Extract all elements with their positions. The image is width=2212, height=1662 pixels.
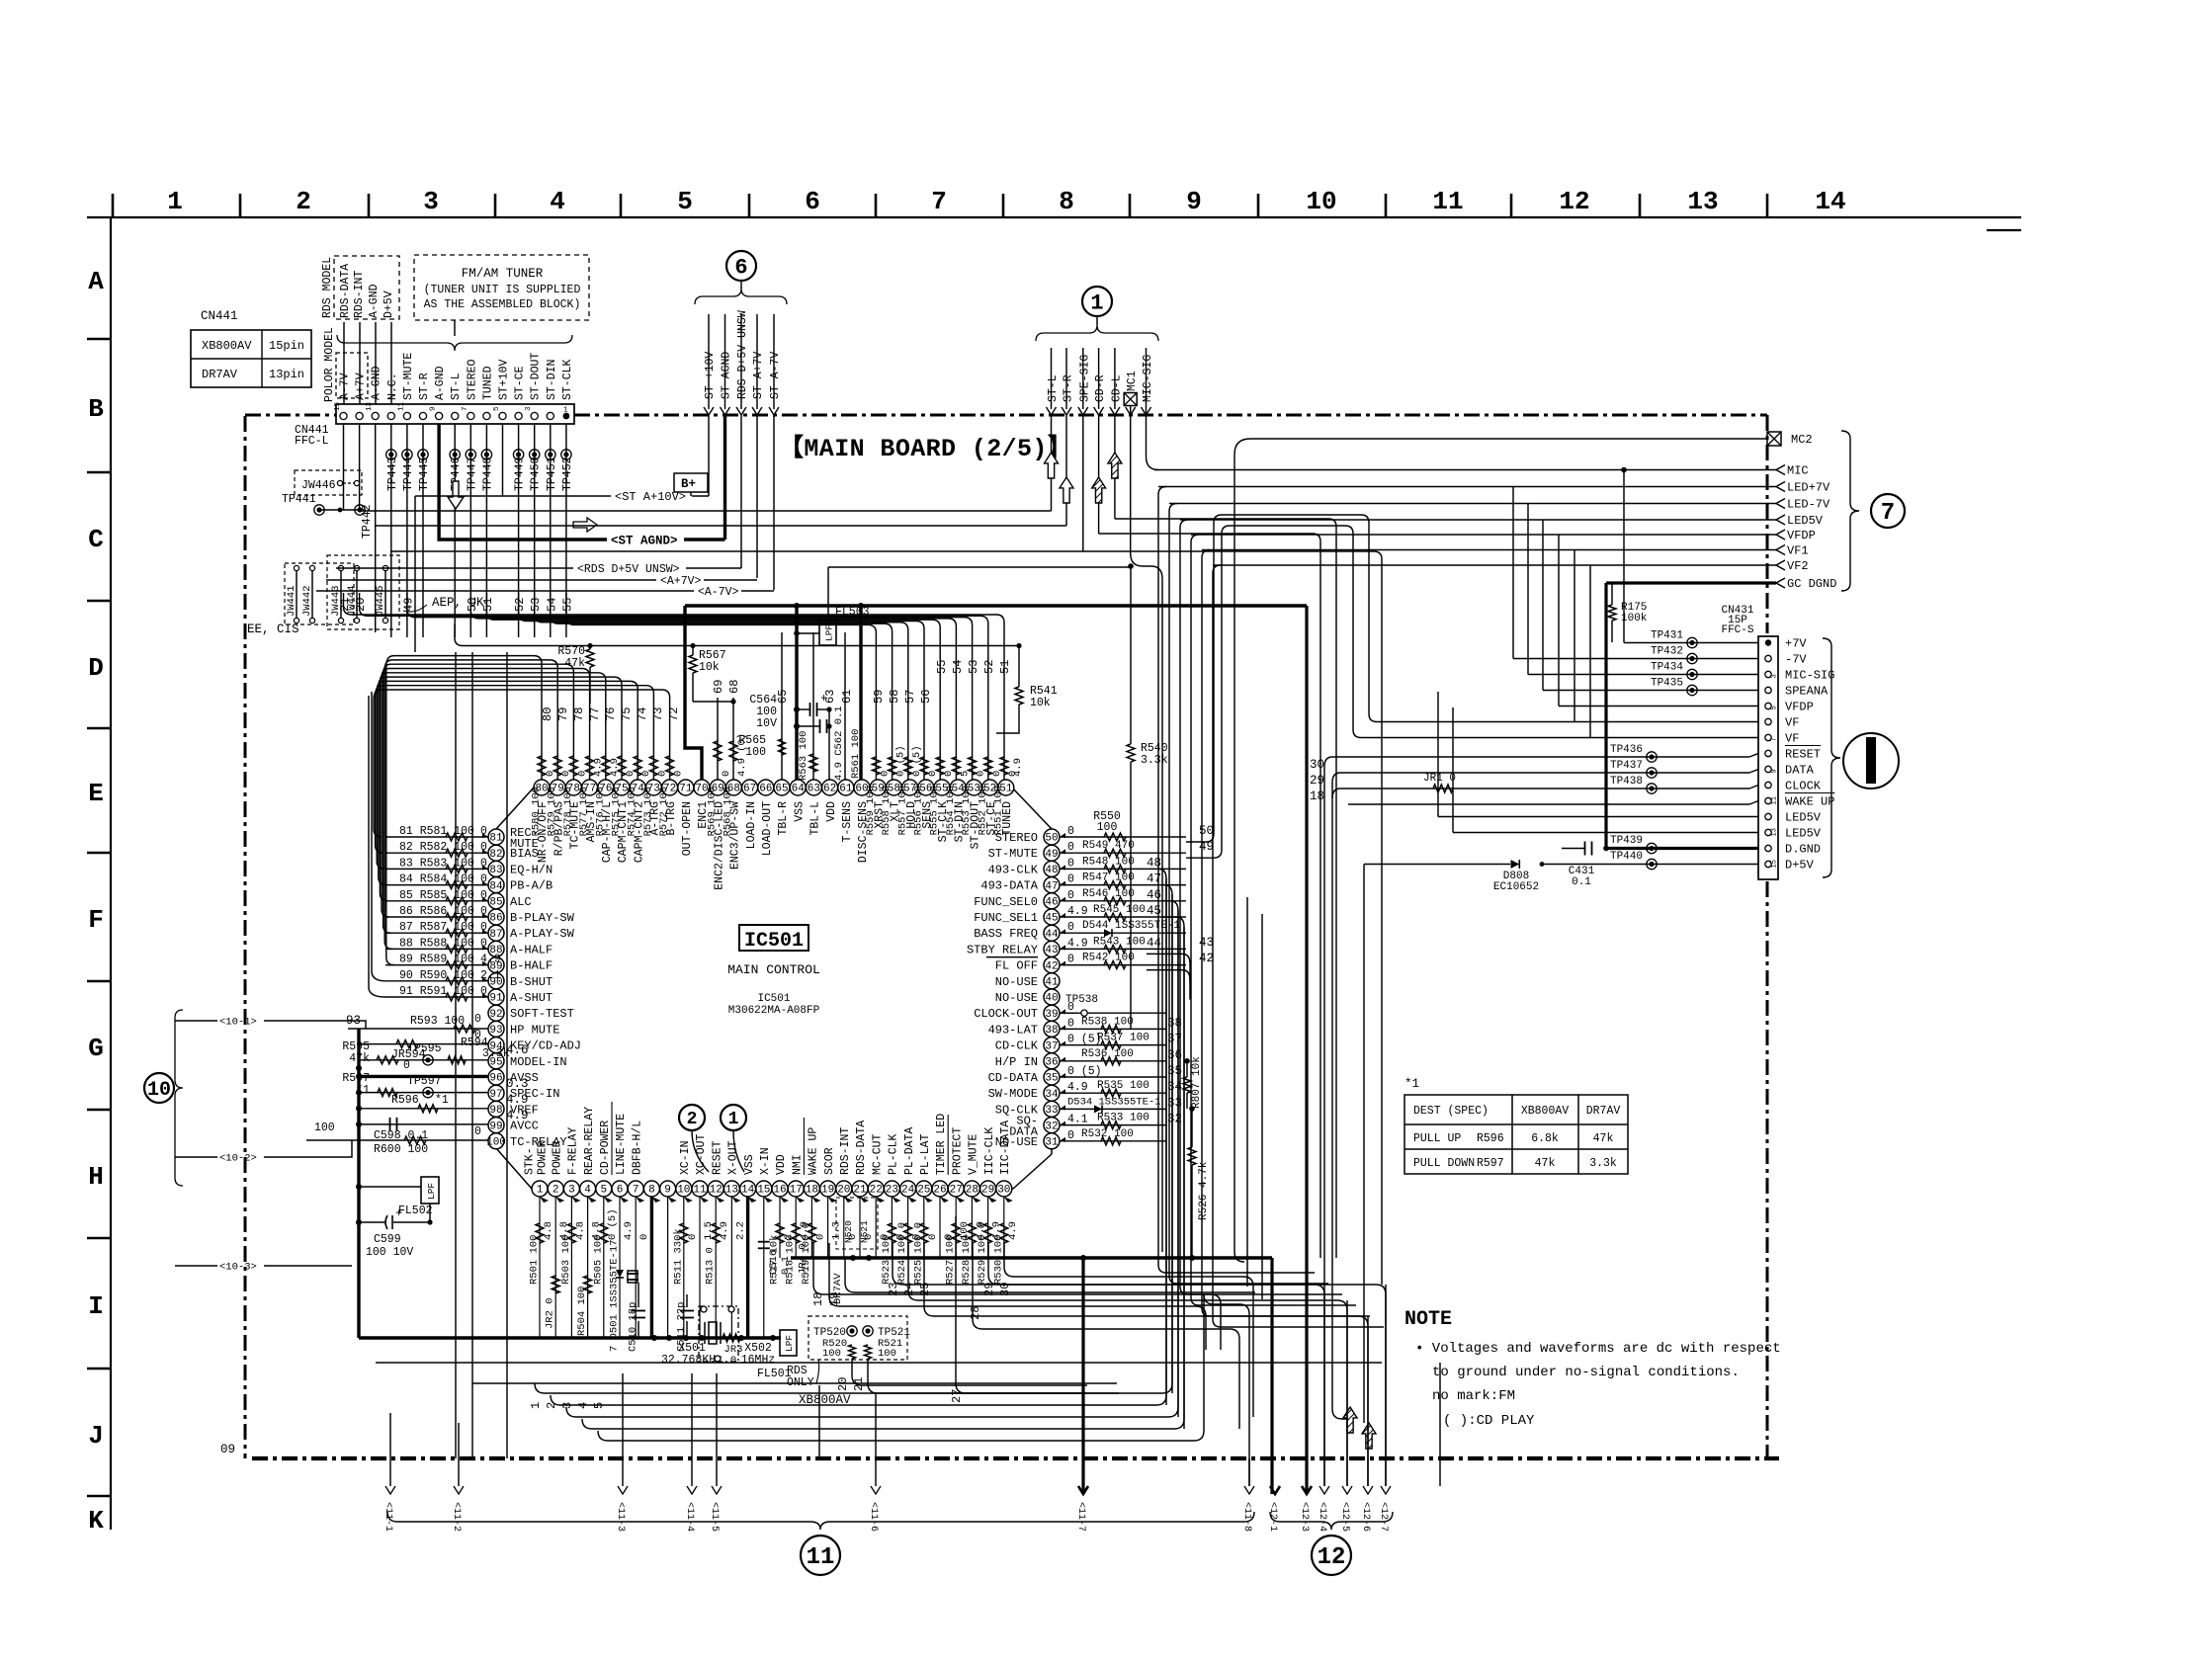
filter FL501 LPF: [780, 1330, 797, 1356]
svg-text:<10-1>: <10-1>: [219, 1017, 257, 1029]
svg-text:T-SENS: T-SENS: [841, 801, 854, 843]
resistor R596: [359, 1108, 488, 1110]
right bus hooks 50 49 Z-runs: [1186, 515, 1758, 842]
svg-text:LINE-MUTE: LINE-MUTE: [615, 1114, 628, 1175]
svg-text:R513 0: R513 0: [705, 1247, 717, 1285]
svg-text:22: 22: [870, 1185, 883, 1197]
svg-text:89 R589 100: 89 R589 100: [399, 954, 474, 966]
svg-text:4.8: 4.8: [574, 1221, 586, 1240]
svg-text:38: 38: [1045, 1025, 1058, 1037]
svg-text:<11-2: <11-2: [451, 1502, 462, 1532]
svg-text:0: 0: [638, 1234, 650, 1240]
bus pin25 to 12-6: [924, 1243, 1368, 1486]
svg-text:55: 55: [560, 598, 574, 612]
svg-text:A-GND: A-GND: [371, 366, 383, 400]
svg-text:7 D501 1SS355TE-17: 7 D501 1SS355TE-17: [609, 1240, 621, 1352]
svg-text:96: 96: [489, 1073, 502, 1085]
IC501 pin 70: [694, 780, 710, 795]
svg-text:+7V: +7V: [1785, 637, 1807, 651]
svg-text:61: 61: [840, 690, 854, 704]
wire pin 23 down: [891, 1197, 893, 1258]
svg-text:27: 27: [950, 1185, 963, 1197]
flag 11-5: [712, 1486, 722, 1494]
right top flags MC2 MIC LED VF: [1767, 432, 1781, 446]
IC501 pin 8: [643, 1181, 659, 1197]
svg-text:A-GND: A-GND: [434, 366, 447, 400]
svg-text:JR2 0: JR2 0: [545, 1297, 556, 1329]
svg-text:53: 53: [529, 598, 543, 612]
svg-text:87: 87: [489, 929, 502, 941]
svg-text:TIMER LED: TIMER LED: [935, 1114, 948, 1175]
svg-text:TP597: TP597: [407, 1075, 442, 1088]
svg-text:32.768KHz: 32.768KHz: [661, 1354, 723, 1367]
svg-text:TP444: TP444: [402, 457, 415, 491]
svg-text:R504 100: R504 100: [576, 1287, 588, 1336]
svg-text:C599: C599: [374, 1233, 401, 1246]
IC501 pin 93: [488, 1021, 504, 1037]
resistor R579: [556, 727, 558, 780]
svg-text:41: 41: [1045, 977, 1059, 989]
svg-text:LED+7V: LED+7V: [1787, 481, 1830, 495]
vertical col 420: [414, 496, 416, 652]
svg-text:<12-7: <12-7: [1378, 1502, 1389, 1532]
svg-text:TP436: TP436: [1610, 744, 1643, 756]
circled 11: [801, 1536, 840, 1575]
bold elbow to pin 70: [685, 606, 702, 780]
svg-text:0: 0: [1067, 841, 1074, 854]
resistor row pin 44: [1060, 932, 1186, 934]
svg-text:NOTE: NOTE: [1404, 1308, 1452, 1331]
svg-text:XB800AV: XB800AV: [1521, 1105, 1569, 1118]
resistor row pin 47: [1060, 884, 1186, 886]
svg-text:<10-3>: <10-3>: [219, 1262, 257, 1274]
flag 11-7: [1078, 1486, 1088, 1494]
IC501 pin 2: [548, 1181, 563, 1197]
svg-text:0: 0: [474, 1125, 481, 1138]
svg-text:83 R583 100: 83 R583 100: [399, 857, 474, 870]
svg-text:VF1: VF1: [1787, 544, 1809, 558]
svg-text:VFDP: VFDP: [1787, 529, 1816, 542]
IC501 pin 59: [870, 780, 886, 795]
svg-text:CLOCK: CLOCK: [1785, 780, 1822, 793]
test points TP449-TP452: [513, 450, 523, 459]
svg-text:B-SHUT: B-SHUT: [510, 975, 553, 989]
svg-text:ST-R: ST-R: [1063, 374, 1075, 402]
wire st agnd to pin9: [439, 424, 607, 540]
bus rows 90 91 stubs: [372, 692, 385, 981]
svg-text:RDS-DATA: RDS-DATA: [855, 1121, 868, 1175]
svg-text:1: 1: [529, 1402, 543, 1409]
svg-text:R553 100: R553 100: [961, 786, 973, 835]
svg-text:47: 47: [1147, 873, 1161, 886]
dashed box N520 N521: [836, 1198, 878, 1249]
svg-text:4.9: 4.9: [506, 1109, 529, 1122]
svg-text:TP451: TP451: [546, 457, 558, 491]
svg-text:493-DATA: 493-DATA: [980, 879, 1038, 893]
svg-text:12: 12: [1318, 1544, 1346, 1571]
svg-text:39: 39: [1045, 1009, 1058, 1021]
svg-text:56: 56: [919, 690, 933, 704]
IC501 pin 42: [1044, 957, 1060, 973]
brace tuner signals: [695, 289, 787, 304]
svg-text:A-GND: A-GND: [368, 284, 381, 318]
svg-text:100: 100: [486, 1137, 506, 1149]
svg-text:100: 100: [822, 1348, 841, 1360]
svg-text:54: 54: [545, 598, 558, 612]
wire pin 15 down: [763, 1197, 765, 1338]
top middle wires pins 65 63 62 61: [781, 632, 783, 780]
svg-text:100 10V: 100 10V: [366, 1246, 413, 1259]
connector CN431 pin 5 VFDP: [1765, 703, 1771, 708]
IC501 pin 22: [868, 1181, 884, 1197]
test point TP439 D.GND bold: [1647, 843, 1657, 853]
svg-text:0.1: 0.1: [780, 1256, 792, 1275]
svg-text:RESET: RESET: [711, 1140, 723, 1175]
svg-text:D534 1SS355TE-1: D534 1SS355TE-1: [1067, 1096, 1161, 1108]
resistor row pin 35: [1060, 1076, 1166, 1078]
svg-text:PL-DATA: PL-DATA: [903, 1127, 916, 1175]
svg-text:ST-CLK: ST-CLK: [561, 359, 574, 400]
svg-text:43: 43: [1199, 936, 1214, 950]
IC501 pin 85: [488, 893, 504, 909]
svg-text:J: J: [88, 1421, 104, 1451]
svg-text:R573 100: R573 100: [642, 787, 654, 836]
resistor R578: [572, 727, 574, 780]
svg-text:87 R587 100: 87 R587 100: [399, 921, 474, 934]
svg-text:<11-5: <11-5: [709, 1502, 720, 1532]
connector CN431 pin 7 VF: [1765, 734, 1771, 740]
IC501 pin 63: [806, 780, 821, 795]
overline PROTECT pin27: [947, 1115, 949, 1175]
svg-text:A-SHUT: A-SHUT: [510, 991, 553, 1005]
flag 11-2: [454, 1486, 464, 1494]
svg-text:TP440: TP440: [1610, 851, 1643, 863]
wire pin 10 down: [683, 1197, 685, 1338]
bus pin29 to 12-7: [988, 1243, 1386, 1486]
jumpers JW441-JW442 dashed box EE CIS: [285, 563, 354, 624]
svg-text:0: 0: [1067, 1129, 1074, 1142]
svg-text:A: A: [88, 267, 104, 296]
resistor R511: [680, 1223, 688, 1243]
signal MC1: [1124, 393, 1137, 406]
wire pin 17 down: [795, 1197, 797, 1258]
IC501 pin 97: [488, 1085, 504, 1101]
svg-text:55: 55: [935, 660, 949, 674]
svg-text:K: K: [88, 1506, 104, 1536]
svg-text:JW441: JW441: [286, 585, 298, 617]
svg-text:<A+7V>: <A+7V>: [660, 575, 702, 588]
wire A-7V flag: [773, 415, 775, 590]
svg-text:86 R586 100: 86 R586 100: [399, 905, 474, 918]
svg-text:0 (5): 0 (5): [911, 745, 923, 777]
svg-text:R807 10k: R807 10k: [1191, 1056, 1203, 1109]
svg-text:R535 100: R535 100: [1097, 1080, 1149, 1092]
svg-text:25: 25: [917, 1185, 930, 1197]
resistor R555: [939, 692, 941, 780]
svg-text:R523 100: R523 100: [881, 1235, 893, 1285]
svg-text:BIAS: BIAS: [510, 847, 539, 861]
long verticals mid page: [1130, 566, 1132, 744]
resistor R574: [637, 727, 638, 780]
test points TP446-TP448: [450, 450, 460, 459]
svg-text:FUNC_SEL1: FUNC_SEL1: [974, 911, 1038, 925]
brace right group 7: [1841, 431, 1859, 591]
svg-text:TP449: TP449: [514, 457, 527, 491]
svg-text:CD-R: CD-R: [1094, 374, 1107, 402]
svg-text:GC DGND: GC DGND: [1787, 577, 1836, 591]
svg-text:TBL-R: TBL-R: [777, 801, 790, 836]
resistor R573: [652, 727, 654, 780]
svg-text:10: 10: [677, 1185, 690, 1197]
svg-text:46: 46: [1147, 888, 1161, 902]
IC501 pin 78: [565, 780, 581, 795]
svg-text:NO-USE: NO-USE: [995, 991, 1038, 1005]
svg-text:64: 64: [792, 784, 806, 795]
svg-text:LPF: LPF: [426, 1183, 437, 1200]
wire pin 18 down: [810, 1197, 812, 1258]
svg-text:85 R585 100: 85 R585 100: [399, 889, 474, 902]
flag 12-6: [1363, 1486, 1373, 1494]
svg-text:POLOR MODEL: POLOR MODEL: [323, 327, 336, 402]
svg-text:4.9: 4.9: [623, 1221, 635, 1240]
svg-text:ST A-7V: ST A-7V: [769, 352, 782, 399]
svg-text:LPF: LPF: [824, 624, 835, 641]
IC501 pin 91: [488, 989, 504, 1005]
resistor R551: [1003, 692, 1005, 780]
svg-text:STEREO: STEREO: [466, 359, 478, 400]
resistor R568: [732, 698, 734, 780]
svg-text:10: 10: [147, 1079, 171, 1102]
svg-text:EC10652: EC10652: [1493, 881, 1539, 893]
svg-text:2.2: 2.2: [734, 1221, 746, 1240]
IC501 pin 50: [1044, 829, 1060, 845]
wire ST+10V: [708, 415, 710, 496]
hollow arrow ST-L: [1051, 415, 1053, 511]
wire pin 3 down: [570, 1197, 572, 1338]
svg-text:TP450: TP450: [530, 457, 543, 491]
hollow arrow right: [573, 518, 597, 532]
svg-text:R575 100: R575 100: [611, 787, 623, 836]
IC501 pin 38: [1044, 1021, 1060, 1037]
svg-text:TBL-L: TBL-L: [809, 801, 822, 836]
svg-text:11: 11: [807, 1544, 835, 1571]
IC501 pin 35: [1044, 1069, 1060, 1085]
svg-text:*1: *1: [1404, 1077, 1419, 1091]
IC501 pin 99: [488, 1118, 504, 1133]
IC501 pin 73: [645, 780, 661, 795]
svg-text:B+: B+: [681, 477, 696, 491]
brace tuner block: [337, 335, 572, 351]
svg-text:POWER: POWER: [537, 1140, 550, 1175]
svg-text:ST-MUTE: ST-MUTE: [402, 353, 415, 400]
svg-text:20: 20: [836, 1377, 850, 1391]
svg-text:A-PLAY-SW: A-PLAY-SW: [510, 927, 575, 941]
IC501 pin 49: [1044, 845, 1060, 861]
svg-text:F-RELAY: F-RELAY: [567, 1127, 580, 1175]
svg-text:R552 100: R552 100: [977, 786, 988, 835]
svg-text:DBFB-H/L: DBFB-H/L: [631, 1121, 643, 1175]
circled 2 above pin11: [679, 1105, 705, 1130]
svg-text:0.1: 0.1: [1572, 876, 1591, 888]
svg-text:31: 31: [1045, 1137, 1059, 1149]
svg-text:VF2: VF2: [1787, 559, 1809, 573]
svg-text:RDS-INT: RDS-INT: [839, 1127, 852, 1175]
svg-text:LED5V: LED5V: [1787, 514, 1824, 528]
svg-text:15: 15: [334, 401, 342, 411]
svg-text:DATA: DATA: [1785, 764, 1815, 778]
svg-text:【MAIN BOARD (2/5)】: 【MAIN BOARD (2/5)】: [779, 434, 1072, 463]
wire CD-R right: [1099, 534, 1320, 1258]
svg-text:R526 4.7k: R526 4.7k: [1198, 1161, 1210, 1220]
resistor R519: [808, 1223, 815, 1243]
svg-text:42: 42: [1199, 952, 1214, 965]
svg-text:7: 7: [1771, 737, 1779, 741]
resistor R556: [923, 692, 925, 780]
IC501 pin 6: [612, 1181, 628, 1197]
connector CN431 pin 9 DATA: [1765, 766, 1771, 772]
svg-text:47: 47: [1045, 880, 1058, 892]
resistor R583: [385, 868, 488, 870]
capacitor C516 0.1: [758, 1241, 770, 1243]
svg-text:X-IN: X-IN: [759, 1147, 772, 1175]
svg-text:MAIN CONTROL: MAIN CONTROL: [727, 962, 820, 977]
svg-text:RESET: RESET: [1785, 748, 1821, 762]
svg-text:PULL DOWN: PULL DOWN: [1413, 1157, 1475, 1170]
svg-text:A+7V: A+7V: [355, 373, 368, 400]
circled 7: [1871, 494, 1905, 528]
svg-text:7: 7: [633, 1185, 639, 1197]
IC501 pin 7: [628, 1181, 643, 1197]
IC501 pin 12: [708, 1181, 723, 1197]
connector CN431 pin 6 VF: [1765, 718, 1771, 724]
IC501 pin 83: [488, 861, 504, 876]
svg-text:11: 11: [1771, 796, 1779, 804]
resistor R575: [621, 727, 623, 780]
svg-text:65: 65: [776, 690, 790, 704]
svg-text:1: 1: [537, 1185, 544, 1197]
svg-text:78: 78: [572, 707, 586, 721]
svg-text:4.9: 4.9: [1067, 905, 1088, 918]
resistor R590: [385, 980, 488, 982]
svg-text:5: 5: [493, 406, 501, 411]
svg-text:D+5V: D+5V: [1785, 859, 1815, 873]
svg-text:DR7AV: DR7AV: [1586, 1105, 1621, 1118]
svg-text:STK-: STK-: [524, 1147, 537, 1175]
svg-text:92: 92: [489, 1009, 502, 1021]
svg-text:61: 61: [839, 784, 853, 795]
svg-text:5: 5: [677, 187, 693, 216]
svg-text:0 (5): 0 (5): [1067, 1065, 1102, 1078]
svg-text:3: 3: [568, 1185, 575, 1197]
svg-text:13pin: 13pin: [269, 368, 304, 381]
resistor row pin 36: [1060, 1060, 1166, 1062]
overline WAKE UP pin18: [803, 1118, 805, 1175]
power label B+: [674, 473, 708, 492]
svg-text:R549 470: R549 470: [1082, 840, 1135, 852]
resistor R505: [600, 1223, 608, 1243]
brace group 11: [387, 1512, 1254, 1530]
svg-text:POWER: POWER: [551, 1140, 563, 1175]
svg-text:ST-CE: ST-CE: [514, 366, 527, 400]
resistor row pin 34: [1060, 1092, 1166, 1094]
svg-text:1: 1: [563, 407, 568, 415]
svg-text:TP437: TP437: [1610, 760, 1643, 772]
IC501 pin 87: [488, 925, 504, 941]
IC501 pin 90: [488, 973, 504, 989]
resistor R527: [952, 1223, 960, 1243]
bold bus row H: [791, 1256, 1272, 1259]
flag 12-1: [1270, 1486, 1280, 1494]
IC501 pin 96: [488, 1069, 504, 1085]
svg-text:TP434: TP434: [1651, 662, 1683, 674]
connector CN441 pins: [340, 412, 347, 419]
svg-text:0: 0: [1067, 954, 1074, 966]
IC501 pin 27: [948, 1181, 964, 1197]
bus pin27 long: [956, 1216, 1119, 1393]
svg-text:N.C.: N.C.: [386, 373, 399, 400]
resistor row pin 33: [1060, 1108, 1166, 1110]
wire ST AGND bold: [723, 415, 726, 540]
wire GC DGND bold: [1606, 581, 1776, 584]
svg-text:11: 11: [397, 401, 405, 411]
svg-text:C516: C516: [768, 1250, 780, 1275]
svg-text:TP445: TP445: [418, 457, 431, 491]
svg-text:CD-L: CD-L: [1110, 374, 1123, 402]
flag 11-4: [687, 1486, 697, 1494]
svg-text:1: 1: [1090, 291, 1103, 315]
svg-text:18: 18: [1310, 789, 1324, 803]
resistor R523: [888, 1223, 895, 1243]
wire pin 6 down: [619, 1197, 621, 1338]
svg-text:-7V: -7V: [1785, 653, 1807, 667]
svg-text:XB800AV: XB800AV: [202, 339, 252, 353]
svg-text:R511 330k: R511 330k: [672, 1228, 684, 1285]
IC501 pin 95: [488, 1053, 504, 1069]
svg-text:62: 62: [823, 784, 836, 795]
svg-text:4.9: 4.9: [1067, 1081, 1088, 1094]
svg-text:93: 93: [489, 1025, 502, 1037]
svg-text:4.6: 4.6: [506, 1043, 529, 1057]
svg-text:21: 21: [853, 1185, 867, 1197]
svg-text:HP MUTE: HP MUTE: [510, 1023, 559, 1037]
capacitor C511 22p: [680, 1310, 694, 1312]
test point TP597: [423, 1087, 433, 1097]
wire 10-3 long: [264, 1265, 352, 1267]
wire pin 8 down: [650, 1197, 653, 1338]
resistor R513: [712, 1223, 720, 1243]
svg-text:45: 45: [1147, 904, 1161, 918]
connector CN431 pin 15 D+5V: [1765, 861, 1771, 867]
jumper JW441: [294, 565, 298, 570]
svg-text:14: 14: [741, 1185, 755, 1197]
IC501 pin 51: [998, 780, 1014, 795]
svg-text:TP442: TP442: [361, 504, 374, 539]
wire rds model to connector: [343, 322, 345, 404]
connector CN431 pin 8 RESET: [1765, 750, 1771, 756]
IC501 pin 13: [723, 1181, 739, 1197]
IC501 pin 20: [836, 1181, 852, 1197]
wire pin 24 down: [907, 1197, 909, 1258]
IC501 pin 86: [488, 909, 504, 925]
svg-text:FL502: FL502: [398, 1205, 433, 1217]
svg-text:<12-4: <12-4: [1317, 1502, 1327, 1532]
svg-text:REAR-RELAY: REAR-RELAY: [583, 1107, 596, 1175]
svg-text:67: 67: [743, 784, 756, 795]
IC501 pin 29: [980, 1181, 996, 1197]
jumper JW443: [338, 565, 343, 570]
resistor R175 100k: [1608, 605, 1616, 621]
svg-text:R559 100: R559 100: [865, 786, 877, 835]
